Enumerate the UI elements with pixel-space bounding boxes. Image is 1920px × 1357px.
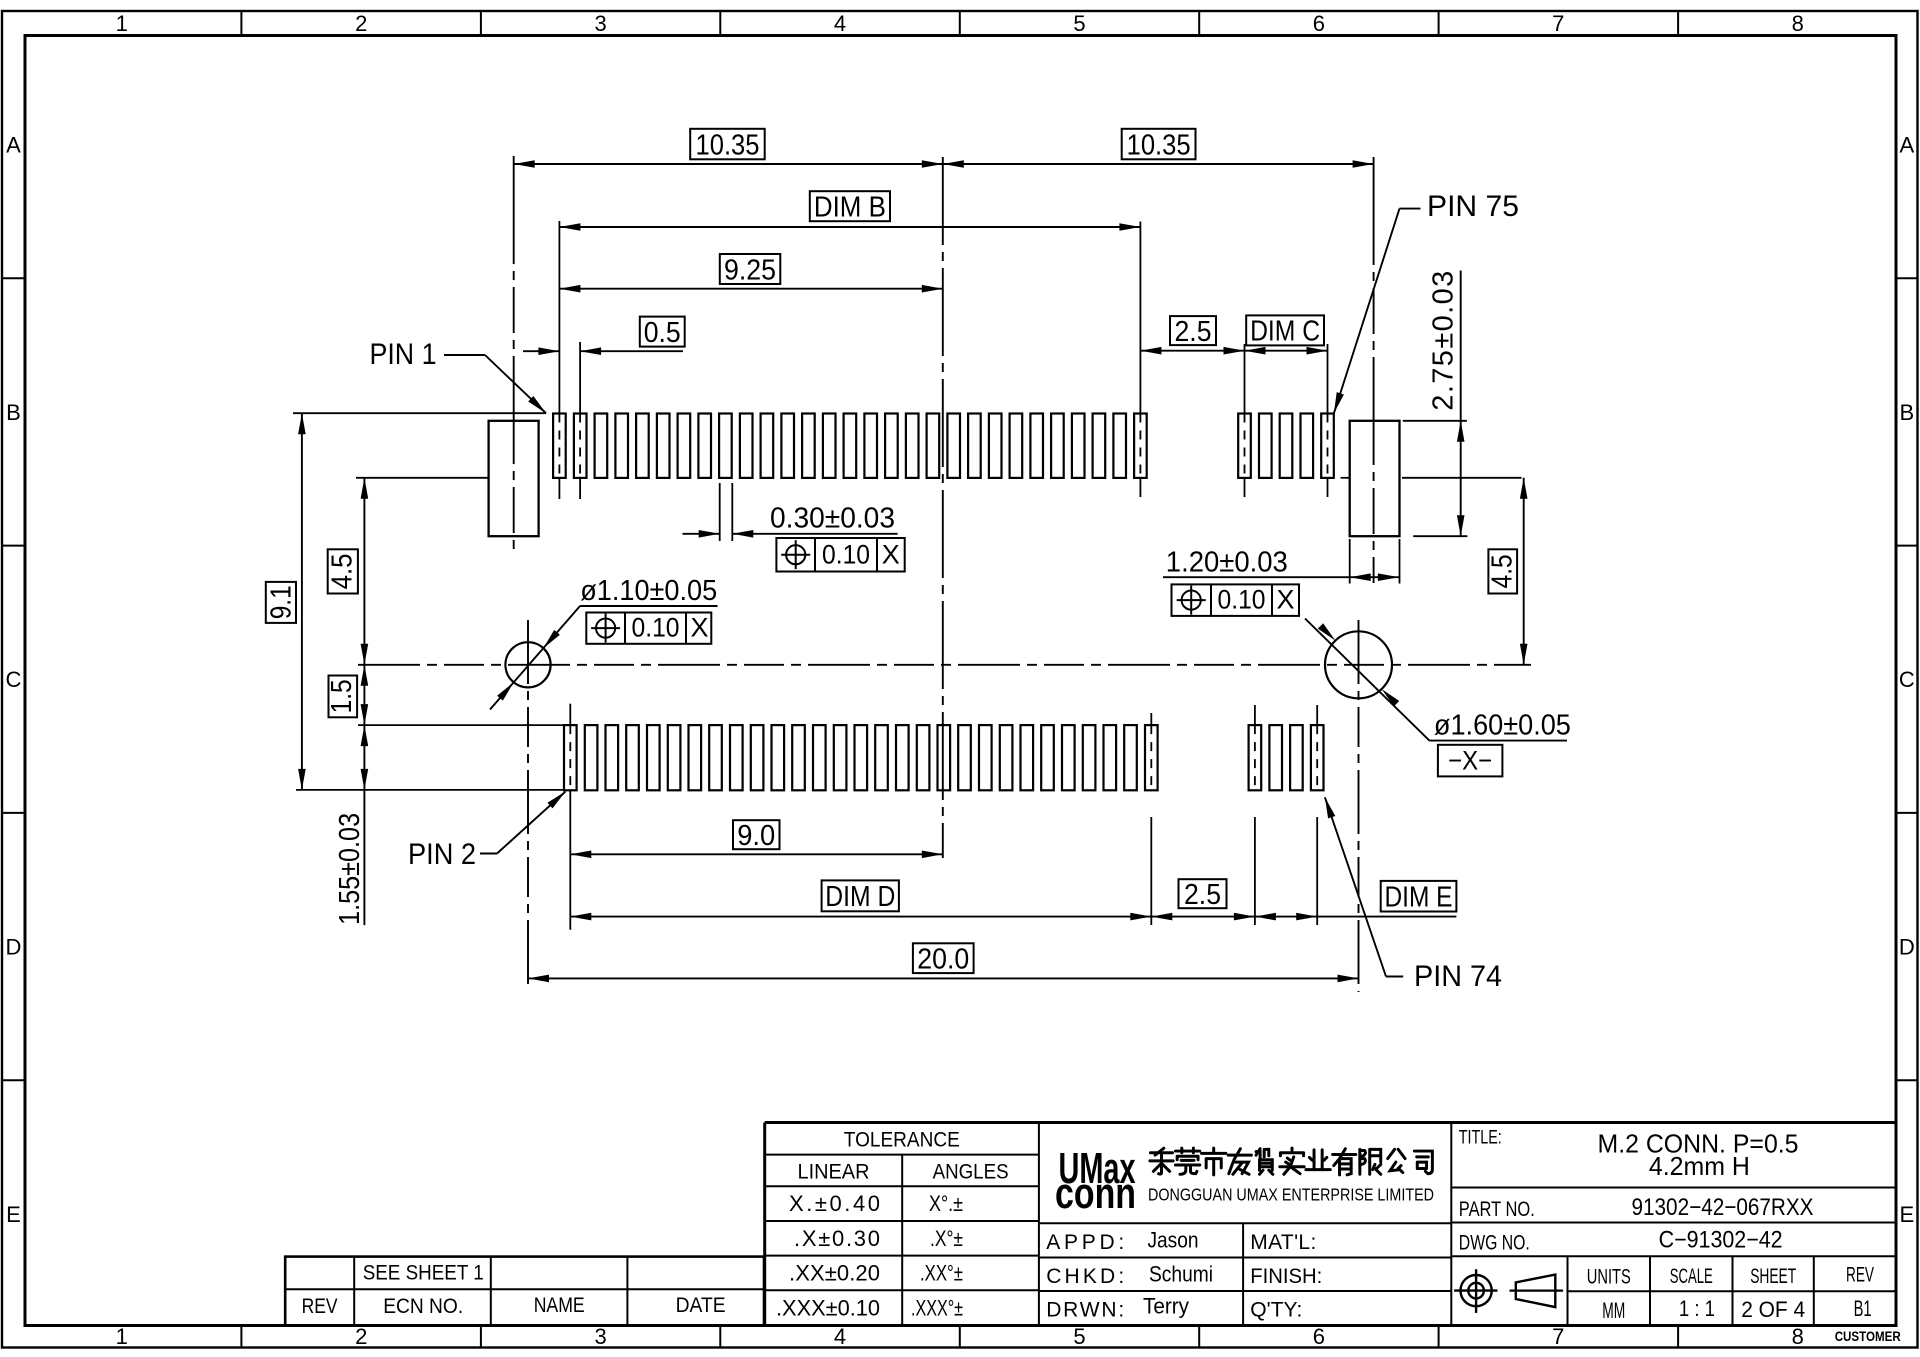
leader PIN 74 (1325, 797, 1502, 993)
svg-text:6: 6 (1313, 11, 1325, 36)
company name Chinese: Dongguan Youmao Industry Co Ltd (1150, 1148, 1432, 1175)
svg-text:ø1.10±0.05: ø1.10±0.05 (580, 575, 717, 607)
revision strip (285, 1257, 764, 1326)
svg-text:Schumi: Schumi (1149, 1262, 1213, 1287)
svg-text:9.1: 9.1 (266, 585, 298, 619)
svg-text:DIM E: DIM E (1385, 882, 1453, 914)
svg-text:X: X (1276, 585, 1294, 615)
reference line bottom pads bottom extended left (296, 789, 563, 791)
reference line mounting pad right top edge (1403, 420, 1467, 422)
extension line pin1 (558, 221, 560, 499)
dimension 4.5 left (327, 478, 369, 665)
svg-text:.X±0.30: .X±0.30 (794, 1226, 880, 1251)
svg-text:.XX±0.20: .XX±0.20 (789, 1260, 880, 1285)
svg-text:X°.±: X°.± (929, 1191, 963, 1216)
svg-text:8: 8 (1792, 1324, 1804, 1349)
svg-text:1: 1 (116, 11, 128, 36)
svg-text:PIN 74: PIN 74 (1414, 960, 1502, 993)
svg-text:Terry: Terry (1143, 1294, 1189, 1319)
svg-text:D: D (6, 935, 22, 960)
svg-text:.XX°±: .XX°± (920, 1260, 963, 1285)
extension lines mounting pad right edges (1350, 539, 1400, 584)
svg-text:9.0: 9.0 (737, 820, 775, 852)
svg-text:.XXX°±: .XXX°± (911, 1295, 963, 1320)
svg-text:0.10: 0.10 (632, 613, 680, 643)
extension line pin74 (1316, 705, 1318, 925)
svg-text:E: E (1899, 1202, 1914, 1227)
extension lines 0.30 pad edges (720, 483, 733, 541)
svg-text:PIN 2: PIN 2 (408, 838, 476, 871)
dimension 10.35 left (514, 129, 943, 168)
svg-text:DATE: DATE (676, 1294, 726, 1317)
svg-text:DONGGUAN UMAX ENTERPRISE LIMIT: DONGGUAN UMAX ENTERPRISE LIMITED (1148, 1185, 1434, 1205)
dimension 9.1 (266, 413, 306, 790)
units scale sheet rev cells (1568, 1256, 1897, 1325)
svg-text:0.5: 0.5 (644, 317, 681, 349)
svg-text:2.5: 2.5 (1184, 879, 1221, 911)
hole left (1.10 dia) (505, 642, 550, 687)
svg-text:DIM B: DIM B (814, 192, 886, 224)
zone numbers 1-8 bottom (116, 1324, 1804, 1349)
svg-text:C: C (6, 667, 22, 692)
centre line hole right (1358, 620, 1360, 992)
svg-text:4.2mm H: 4.2mm H (1649, 1151, 1750, 1181)
zone letters A-E right (1899, 133, 1915, 1227)
dimension 1.5 (326, 665, 368, 725)
svg-text:Q'TY:: Q'TY: (1250, 1299, 1302, 1322)
title block frame (765, 1123, 1896, 1326)
part no row (1451, 1194, 1896, 1223)
dimension 2.75 +/-0.03 (1428, 271, 1465, 537)
bottom pad row (pins 2..74 even) (564, 725, 1324, 790)
svg-text:CHKD:: CHKD: (1046, 1265, 1124, 1288)
svg-text:APPD:: APPD: (1046, 1231, 1124, 1254)
svg-text:4.5: 4.5 (327, 553, 359, 589)
svg-text:0.10: 0.10 (1218, 585, 1266, 615)
centre line mounting pad right (1373, 157, 1375, 583)
dwg no row (1451, 1227, 1896, 1257)
svg-text:3: 3 (594, 1324, 606, 1349)
svg-text:1.5: 1.5 (326, 679, 358, 713)
dimension 0.5 (523, 317, 685, 355)
svg-text:B: B (1899, 400, 1914, 425)
extension line pin2 (569, 704, 571, 930)
svg-text:X: X (690, 613, 708, 643)
tolerance table (765, 1128, 1039, 1325)
dimension DIM C (1245, 315, 1328, 354)
svg-text:ECN NO.: ECN NO. (383, 1295, 463, 1318)
svg-text:X: X (882, 540, 900, 570)
hole right (1.60 dia) (1325, 631, 1392, 698)
dimension DIM E (1255, 881, 1457, 921)
dimension DIM B (559, 191, 1140, 231)
svg-text:0.30±0.03: 0.30±0.03 (770, 503, 895, 535)
svg-text:2: 2 (355, 11, 367, 36)
dimension 4.5 right (1486, 478, 1527, 665)
dimension 1.20 +/-0.03 with position frame (1163, 547, 1399, 616)
reference line mounting pad right bottom edge (1413, 535, 1467, 537)
svg-text:4: 4 (834, 1324, 846, 1349)
dimension 9.0 (570, 820, 943, 858)
svg-text:TITLE:: TITLE: (1459, 1128, 1502, 1149)
mounting pad left (489, 421, 539, 536)
svg-text:7: 7 (1552, 1324, 1564, 1349)
extension line top pad 2 (579, 342, 581, 499)
svg-text:2 OF 4: 2 OF 4 (1741, 1297, 1805, 1322)
svg-text:UNITS: UNITS (1587, 1266, 1631, 1289)
svg-text:2.75±0.03: 2.75±0.03 (1428, 271, 1460, 411)
svg-text:9.25: 9.25 (724, 254, 776, 286)
dimension 9.25 (559, 254, 942, 293)
svg-text:0.10: 0.10 (822, 540, 870, 570)
extension line pin75 (1327, 344, 1329, 497)
svg-text:SHEET: SHEET (1750, 1265, 1796, 1288)
svg-text:1: 1 (116, 1324, 128, 1349)
svg-text:ANGLES: ANGLES (933, 1161, 1009, 1184)
svg-text:DIM C: DIM C (1250, 316, 1320, 348)
svg-text:20.0: 20.0 (917, 944, 969, 976)
svg-text:SCALE: SCALE (1670, 1265, 1713, 1288)
svg-text:REV: REV (1846, 1264, 1874, 1287)
svg-text:CUSTOMER: CUSTOMER (1835, 1329, 1901, 1344)
vertical centre line (key) (942, 157, 944, 858)
svg-text:10.35: 10.35 (1127, 129, 1191, 161)
reference line pads bottom extended left (356, 477, 488, 479)
svg-text:1.20±0.03: 1.20±0.03 (1166, 547, 1288, 579)
svg-text:−X−: −X− (1448, 746, 1492, 776)
svg-text:4: 4 (834, 11, 846, 36)
extension line last bottom pad (1150, 713, 1152, 925)
title cell (1451, 1128, 1896, 1188)
dimension 2.5 top (1140, 316, 1244, 355)
svg-text:6: 6 (1313, 1324, 1325, 1349)
leader and label dia 1.60 +/-0.05 with datum -X- (1305, 619, 1571, 777)
dimension DIM D (570, 880, 1151, 920)
svg-text:2.5: 2.5 (1175, 316, 1212, 348)
svg-text:1 : 1: 1 : 1 (1679, 1296, 1715, 1321)
dimension 0.30 +/-0.03 with position frame (683, 503, 905, 572)
svg-text:C: C (1899, 667, 1915, 692)
svg-text:A: A (1899, 133, 1914, 158)
svg-text:PIN 75: PIN 75 (1427, 190, 1519, 223)
svg-text:D: D (1899, 935, 1915, 960)
extension line first keyed bottom pad (1254, 705, 1256, 925)
svg-text:LINEAR: LINEAR (798, 1161, 870, 1184)
svg-text:conn: conn (1055, 1169, 1136, 1218)
dimension 1.55 +/-0.03 (334, 725, 368, 925)
svg-text:NAME: NAME (534, 1294, 585, 1317)
svg-text:FINISH:: FINISH: (1250, 1265, 1322, 1288)
svg-text:ø1.60±0.05: ø1.60±0.05 (1434, 710, 1571, 742)
extension line last top pad (1139, 222, 1141, 498)
svg-text:.X°±: .X°± (930, 1226, 963, 1251)
svg-text:A: A (6, 133, 21, 158)
svg-text:B1: B1 (1854, 1296, 1872, 1321)
svg-text:E: E (6, 1202, 21, 1227)
zone letters A-E left (6, 133, 22, 1227)
svg-text:B: B (6, 400, 21, 425)
reference line pads top extended left (293, 412, 546, 414)
svg-text:DWG NO.: DWG NO. (1459, 1232, 1530, 1255)
svg-text:5: 5 (1073, 1324, 1085, 1349)
svg-text:REV: REV (302, 1295, 338, 1318)
dimension 10.35 right (943, 129, 1374, 168)
svg-text:5: 5 (1073, 11, 1085, 36)
dimension 20.0 (528, 943, 1359, 982)
top pad row (pins 1..59 odd) (553, 414, 1334, 478)
leader PIN 2 (408, 792, 566, 872)
svg-text:C−91302−42: C−91302−42 (1659, 1227, 1783, 1254)
company logo UMaxconn (1055, 1144, 1136, 1218)
svg-text:DIM D: DIM D (825, 881, 895, 913)
svg-text:MM: MM (1602, 1298, 1625, 1323)
svg-text:MAT'L:: MAT'L: (1250, 1231, 1316, 1254)
svg-text:3: 3 (594, 11, 606, 36)
leader PIN 1 (370, 338, 547, 413)
svg-text:1.55±0.03: 1.55±0.03 (334, 813, 366, 925)
svg-text:10.35: 10.35 (696, 129, 760, 161)
centre line mounting pad left (513, 156, 515, 556)
reference line bottom pads top extended left (358, 724, 563, 726)
svg-text:.XXX±0.10: .XXX±0.10 (776, 1295, 880, 1320)
svg-text:7: 7 (1552, 11, 1564, 36)
svg-text:PART NO.: PART NO. (1459, 1198, 1535, 1221)
approval rows (1039, 1223, 1451, 1325)
svg-text:TOLERANCE: TOLERANCE (844, 1128, 960, 1151)
svg-text:SEE SHEET 1: SEE SHEET 1 (363, 1261, 484, 1284)
mounting pad right (1350, 421, 1400, 536)
svg-text:4.5: 4.5 (1486, 554, 1518, 588)
third angle projection symbol (1454, 1269, 1563, 1313)
svg-text:DRWN:: DRWN: (1046, 1299, 1124, 1322)
svg-text:8: 8 (1792, 11, 1804, 36)
zone numbers 1-8 top (116, 11, 1804, 36)
svg-text:91302−42−067RXX: 91302−42−067RXX (1632, 1194, 1814, 1221)
reference line pads bottom extended right (1341, 477, 1522, 479)
leader PIN 75 (1334, 190, 1519, 413)
dimension 2.5 bottom (1151, 879, 1255, 920)
leader and label dia 1.10 +/-0.05 with position frame (490, 575, 718, 710)
svg-text:Jason: Jason (1148, 1228, 1199, 1253)
svg-text:2: 2 (355, 1324, 367, 1349)
extension line first keyed top pad (1244, 344, 1246, 497)
svg-text:PIN 1: PIN 1 (370, 338, 437, 371)
horizontal centre line (358, 664, 1531, 666)
centre line hole left (527, 620, 529, 987)
